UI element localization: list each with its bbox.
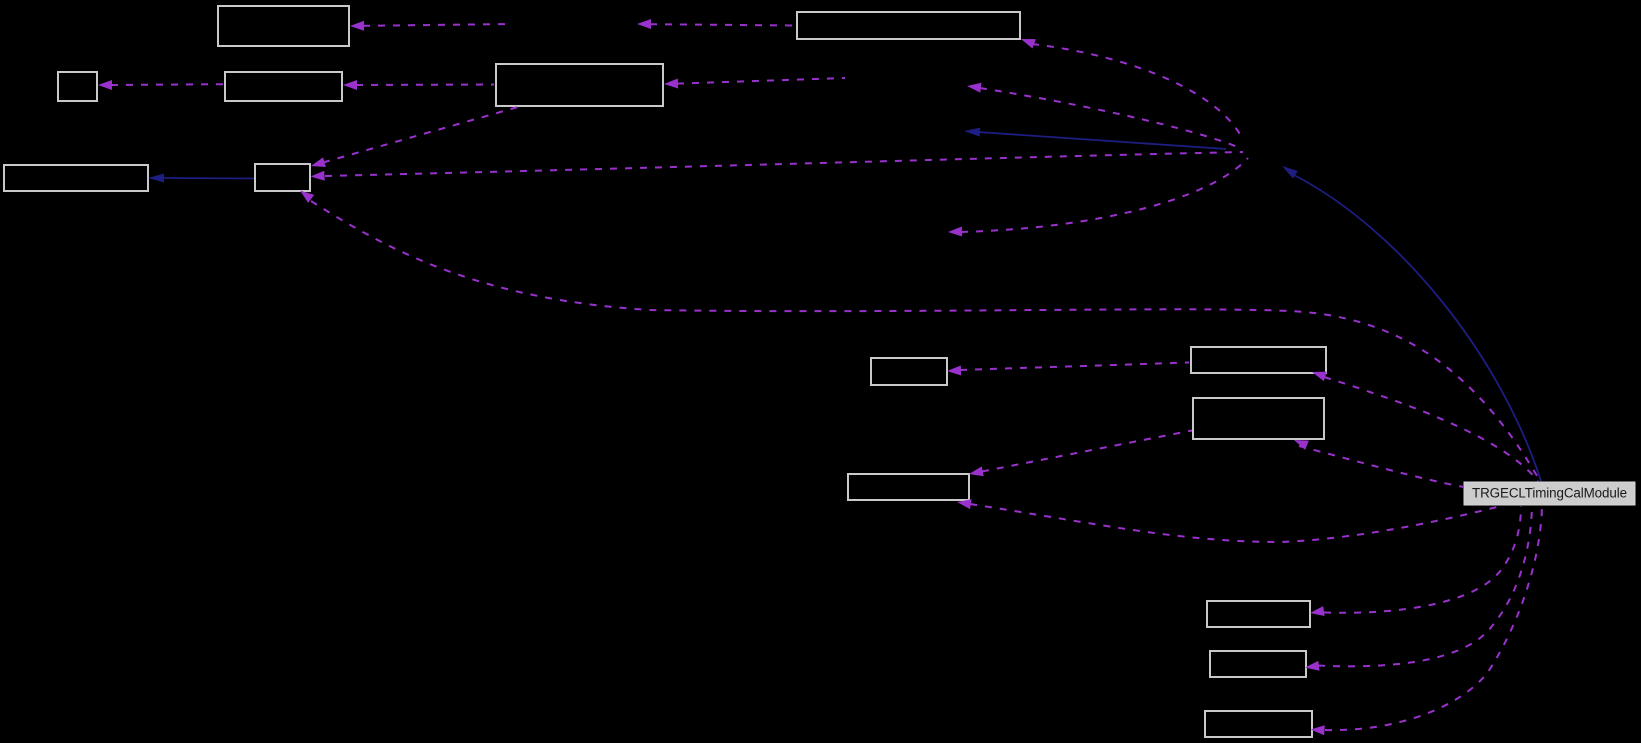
node K (empty class box bottom)	[1205, 711, 1312, 737]
edge blue2 (solid blue arc, label box to hub)	[1280, 162, 1541, 481]
edge e11 (dashed, D bottom to node G top-right)	[310, 107, 518, 171]
node D (empty class box)	[496, 64, 663, 106]
edge e17 (dashed arc, label box to node H bottom-right)	[956, 497, 1503, 542]
edge e20 (dashed arc, label box to node K)	[1310, 506, 1542, 735]
edge e15 (dashed, B1 to node S)	[947, 363, 1189, 376]
node C (empty class box)	[225, 72, 342, 101]
edge e3 (dashed, C to B)	[98, 80, 223, 90]
node F (empty class box left)	[4, 165, 148, 191]
edge e5 (dashed, hidden node to D)	[664, 78, 845, 89]
node S (empty class box middle)	[871, 358, 947, 385]
edge e14 (dashed, label box to node B2 bottom edge)	[1292, 435, 1464, 487]
node E (wide empty class box top)	[797, 12, 1020, 39]
edge e10 (dashed arc, hub to hidden node low)	[948, 158, 1248, 237]
edge e16 (dashed, B2 to node H top-right)	[968, 431, 1192, 479]
svg-text:TRGECLTimingCalModule: TRGECLTimingCalModule	[1472, 486, 1627, 501]
node B (small empty class box)	[58, 72, 97, 101]
edge blue1 (solid blue, node G to node F)	[148, 174, 254, 183]
node TRGECLTimingCalModule (filled label box)	[1464, 482, 1635, 505]
edge e19 (dashed arc, label box to node J)	[1304, 506, 1532, 672]
node G (small empty class box)	[255, 164, 310, 191]
edge e6 (dashed arc, hub to node E bottom-right corner)	[1019, 34, 1242, 138]
edge e4 (dashed, D to C)	[343, 80, 494, 90]
edge e1 (dashed, into node A)	[350, 21, 512, 31]
node A (empty class box top-left)	[218, 6, 349, 46]
edge e8 (solid blue, hub to hidden node)	[964, 127, 1226, 149]
node B2 (empty class box right tall)	[1193, 398, 1324, 439]
edge e9 (long dashed, hub to node G right edge)	[310, 152, 1243, 181]
edge e13 (dashed, label box to node B1 bottom-right)	[1310, 367, 1538, 481]
edge e2 (dashed, from node E to hidden node)	[637, 19, 795, 29]
node H (empty class box middle-low)	[848, 474, 969, 500]
edge e12 (long dashed arc, label box to node G bottom-right)	[297, 187, 1540, 481]
edge e7 (dashed, hub to hidden node)	[966, 81, 1240, 148]
node B1 (empty class box right)	[1191, 347, 1326, 373]
node I (empty class box bottom)	[1207, 601, 1310, 627]
node J (empty class box bottom)	[1210, 651, 1306, 677]
edge e18 (dashed arc, label box to node I)	[1309, 506, 1521, 618]
